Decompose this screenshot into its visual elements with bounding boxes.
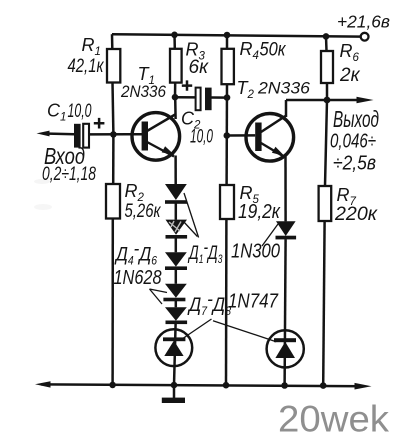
svg-text:1N300: 1N300 <box>231 241 280 263</box>
svg-text:R1: R1 <box>82 35 101 58</box>
svg-text:0,2÷1,18: 0,2÷1,18 <box>42 164 96 185</box>
svg-text:Д1-Д3: Д1-Д3 <box>188 237 223 267</box>
svg-text:2к: 2к <box>339 65 361 86</box>
svg-text:20wek: 20wek <box>278 399 390 440</box>
svg-text:1N747: 1N747 <box>228 291 279 313</box>
svg-text:10,0: 10,0 <box>190 127 213 148</box>
svg-text:C1: C1 <box>47 101 66 124</box>
svg-text:2N336: 2N336 <box>257 79 311 98</box>
svg-text:42,1к: 42,1к <box>68 56 105 77</box>
svg-text:0,046÷: 0,046÷ <box>330 131 376 153</box>
svg-text:R6: R6 <box>340 41 360 64</box>
svg-text:Д4-Д6: Д4-Д6 <box>114 238 157 268</box>
svg-text:2N336: 2N336 <box>120 83 167 101</box>
svg-text:1N628: 1N628 <box>114 267 162 289</box>
svg-text:220к: 220к <box>334 203 378 225</box>
svg-text:19,2к: 19,2к <box>238 201 281 223</box>
svg-text:50к: 50к <box>260 40 287 61</box>
svg-text:T2: T2 <box>237 78 255 101</box>
svg-text:6к: 6к <box>189 57 210 78</box>
svg-text:10,0: 10,0 <box>68 101 92 122</box>
svg-text:Выход: Выход <box>333 106 379 132</box>
svg-text:5,26к: 5,26к <box>125 201 162 222</box>
svg-text:Д7-Д8: Д7-Д8 <box>187 289 231 319</box>
svg-text:÷2,5в: ÷2,5в <box>333 153 376 175</box>
svg-text:R4: R4 <box>240 39 259 62</box>
svg-text:+21,6в: +21,6в <box>337 12 390 32</box>
